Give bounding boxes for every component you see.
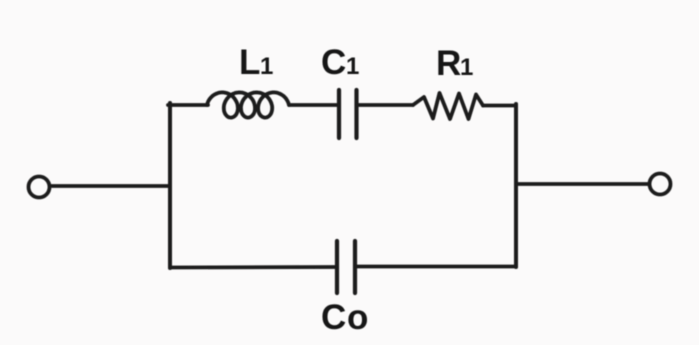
inductor L1 (207, 92, 289, 117)
input terminal (left) (29, 177, 50, 198)
wire R1 to right rail (483, 104, 516, 108)
svg-text:1: 1 (460, 54, 473, 81)
wire right output (516, 182, 649, 186)
wire L1 to C1 (289, 103, 338, 107)
svg-text:C: C (321, 298, 346, 337)
svg-text:C: C (321, 43, 346, 82)
wire right rail (514, 104, 518, 267)
svg-text:o: o (347, 298, 368, 337)
svg-text:1: 1 (260, 53, 273, 80)
wire C1 to R1 (357, 103, 413, 107)
wire left rail (168, 103, 172, 268)
wire left input (50, 184, 170, 188)
output terminal (right) (650, 174, 671, 195)
svg-text:L: L (239, 43, 260, 82)
resistor R1 (413, 93, 483, 119)
wire top-left segment (168, 103, 208, 107)
wire bottom-left segment (170, 265, 336, 269)
svg-text:1: 1 (346, 53, 359, 80)
capacitor C0 plate right (353, 241, 357, 293)
wire bottom-right segment (356, 265, 516, 269)
svg-text:R: R (436, 44, 461, 83)
capacitor C1 plate left (337, 90, 341, 138)
capacitor C1 plate right (354, 90, 358, 138)
capacitor C0 plate left (335, 241, 339, 293)
